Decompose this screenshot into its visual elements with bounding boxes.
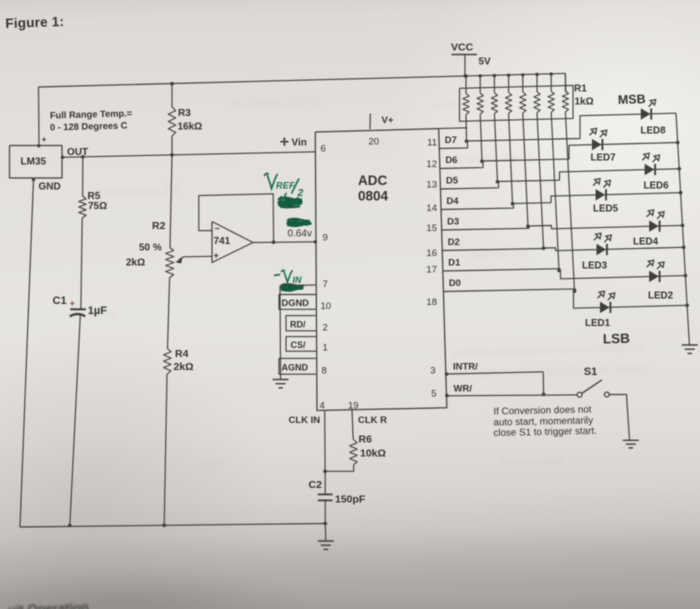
annotation scribble 3 xyxy=(281,284,305,291)
label R2 percent xyxy=(139,243,162,254)
wire D0 net xyxy=(443,289,687,308)
pin number 20 xyxy=(369,136,380,147)
node pin9 edge xyxy=(314,240,317,243)
node pin3 xyxy=(445,372,449,376)
node D4 resistor junction xyxy=(511,202,515,206)
pin number 13 xyxy=(426,180,437,191)
ground C2 symbol xyxy=(318,541,334,549)
svg-text:R6: R6 xyxy=(359,434,373,446)
sensor LM35 xyxy=(10,146,63,179)
resistor R1 element 8 xyxy=(562,74,574,292)
label R3 xyxy=(178,108,203,133)
svg-text:5V: 5V xyxy=(479,57,492,68)
wire clk to C2 xyxy=(324,471,326,494)
capacitor C1 xyxy=(53,295,86,317)
annotation scribble 1 xyxy=(278,193,303,207)
svg-text:ln the res on PIC: ln the res on PIC xyxy=(95,185,182,199)
node cathode bus LED1 xyxy=(685,304,689,308)
wire pin7 xyxy=(280,284,316,287)
label Vin xyxy=(280,137,307,149)
pin number 19 xyxy=(348,400,359,411)
label WR xyxy=(454,384,473,395)
wire D3 net xyxy=(442,225,683,230)
svg-text:IN: IN xyxy=(293,275,303,285)
wire R6 top xyxy=(352,410,353,440)
svg-text:0804: 0804 xyxy=(358,189,389,204)
svg-text:7: 7 xyxy=(323,279,328,290)
svg-text:LED1: LED1 xyxy=(585,318,611,329)
svg-text:AGND: AGND xyxy=(282,363,309,373)
svg-text:2kΩ: 2kΩ xyxy=(126,258,145,269)
pin label D3 xyxy=(447,215,459,226)
wire LM35 plus xyxy=(37,87,40,148)
label R6 xyxy=(359,434,386,460)
resistor R1 element 6 xyxy=(534,74,544,248)
resistor R6 xyxy=(350,440,357,466)
svg-text:CLK IN: CLK IN xyxy=(289,415,321,426)
node cathode bus LED2 xyxy=(684,274,688,278)
figure title xyxy=(5,14,64,31)
svg-text:+: + xyxy=(42,134,47,144)
node cathode bus LED3 xyxy=(682,246,686,250)
svg-text:+: + xyxy=(214,251,219,261)
node R1 bus junction 5 xyxy=(521,73,524,76)
node R1 bus junction 3 xyxy=(493,74,496,77)
svg-text:LM35: LM35 xyxy=(21,157,47,168)
svg-text:D5: D5 xyxy=(446,174,458,185)
wire S1 to ground xyxy=(609,394,629,440)
label LED5 xyxy=(593,204,619,215)
pin V+ stub xyxy=(370,114,394,130)
power VCC xyxy=(451,42,491,77)
pin number 7 xyxy=(323,279,328,290)
svg-text:Vin: Vin xyxy=(292,138,307,149)
note full range xyxy=(50,108,133,132)
wire wiper to opamp xyxy=(184,255,213,258)
wire D7 box top xyxy=(439,127,468,130)
svg-text:LED5: LED5 xyxy=(593,204,619,215)
node clk junction xyxy=(323,470,327,474)
LED LED6 xyxy=(642,153,659,175)
pin number 3 xyxy=(430,366,435,377)
node cathode bus LED6 xyxy=(677,167,681,171)
node R1 bus junction 4 xyxy=(507,74,510,77)
svg-text:150pF: 150pF xyxy=(335,494,366,506)
label LED8 xyxy=(641,126,667,137)
resistor R4 xyxy=(164,349,171,375)
wire ground bus xyxy=(20,524,325,528)
label LED7 xyxy=(591,153,617,164)
svg-text:LED6: LED6 xyxy=(644,181,670,192)
wire D1 net xyxy=(443,269,686,279)
LED LED8 xyxy=(641,100,656,120)
svg-text:C2: C2 xyxy=(309,479,323,491)
label CLK IN xyxy=(289,415,321,426)
svg-text:Full Range Temp.=: Full Range Temp.= xyxy=(50,108,133,120)
pin label D1 xyxy=(448,256,460,267)
svg-text:741: 741 xyxy=(214,236,231,247)
svg-text:−: − xyxy=(215,224,220,234)
svg-text:C1: C1 xyxy=(53,295,67,307)
node R1 bus junction 7 xyxy=(550,72,553,75)
wire R3 top xyxy=(171,84,173,107)
svg-text:D1: D1 xyxy=(448,256,460,267)
label C1 value xyxy=(88,305,107,317)
pin label D0 xyxy=(449,277,461,288)
svg-text:0 - 128 Degrees C: 0 - 128 Degrees C xyxy=(50,120,128,132)
label R2 value xyxy=(126,258,145,269)
wire D6 net xyxy=(440,143,678,169)
node gnd bus C1 xyxy=(68,524,72,528)
ground AGND symbol xyxy=(273,380,289,388)
wire R3 bottom xyxy=(171,136,173,155)
svg-text:10kΩ: 10kΩ xyxy=(360,448,386,460)
wire LED cathode bus xyxy=(676,113,689,344)
svg-text:D6: D6 xyxy=(445,154,457,165)
label LED2 xyxy=(648,291,674,302)
svg-text:INTR/: INTR/ xyxy=(453,362,478,373)
pin number 4 xyxy=(320,401,325,412)
svg-text:D0: D0 xyxy=(449,277,461,288)
svg-text:RD/: RD/ xyxy=(290,320,306,330)
svg-text:6: 6 xyxy=(321,144,326,155)
pin number 5 xyxy=(431,389,436,400)
svg-text:4: 4 xyxy=(320,401,325,412)
node D2 resistor junction xyxy=(542,246,546,250)
svg-text:ace: ace xyxy=(205,457,224,469)
wire LM35 gnd down xyxy=(20,178,35,527)
wire agnd chain xyxy=(279,286,282,379)
svg-text:R1: R1 xyxy=(574,84,587,95)
annotation scribble 2 xyxy=(287,219,312,226)
pin number 6 xyxy=(321,144,326,155)
svg-text:12: 12 xyxy=(426,159,437,170)
label LED4 xyxy=(633,237,659,248)
resistor R1 element 3 xyxy=(491,75,497,181)
node R3 bus xyxy=(170,82,174,86)
wire WR xyxy=(447,394,577,397)
pin number 14 xyxy=(426,203,437,214)
node R1 bus junction 1 xyxy=(464,75,467,78)
svg-text:LED2: LED2 xyxy=(648,291,674,302)
svg-text:17: 17 xyxy=(426,265,437,276)
svg-text:se od: se od xyxy=(430,99,459,112)
label CLK R xyxy=(358,415,387,426)
wire D4 net xyxy=(441,193,681,210)
label MSB xyxy=(618,92,646,107)
node cathode bus LED5 xyxy=(679,191,683,195)
label GND xyxy=(39,182,61,193)
pin number 11 xyxy=(427,138,437,149)
svg-text:+: + xyxy=(70,298,75,308)
wire R4 down xyxy=(164,374,167,525)
label LED6 xyxy=(644,181,670,192)
svg-text:3: 3 xyxy=(430,366,435,377)
wire D2 net xyxy=(442,247,684,250)
svg-text:WR/: WR/ xyxy=(454,384,473,395)
pin number 9 xyxy=(323,233,328,244)
pin number 12 xyxy=(426,159,437,170)
label R5 xyxy=(88,191,108,212)
wire R5 top xyxy=(82,157,84,196)
wire VCC bus xyxy=(39,73,566,92)
wire OUT to R2 xyxy=(170,155,172,248)
potentiometer R2 xyxy=(166,248,174,278)
pin box DGND xyxy=(279,295,316,310)
svg-text:LED7: LED7 xyxy=(591,153,617,164)
switch S1 xyxy=(577,380,609,397)
svg-text:GND: GND xyxy=(39,182,61,193)
resistor R1 element 4 xyxy=(506,75,513,204)
svg-text:50 %: 50 % xyxy=(139,243,162,254)
node D1 resistor junction xyxy=(557,269,561,273)
svg-text:2: 2 xyxy=(297,187,304,199)
svg-text:LSB: LSB xyxy=(603,331,631,347)
pin number 1 xyxy=(323,343,328,354)
pin label D6 xyxy=(445,154,457,165)
wire D5 net xyxy=(441,169,680,189)
svg-text:S1: S1 xyxy=(584,366,597,378)
wire R6 bottom xyxy=(325,465,354,471)
wire opamp out xyxy=(253,241,316,244)
wire bus to ground xyxy=(324,524,326,541)
node OUT c xyxy=(170,153,174,157)
capacitor C2 xyxy=(309,479,333,500)
pin label D4 xyxy=(447,195,460,206)
svg-text:R4: R4 xyxy=(175,348,189,360)
pin number 15 xyxy=(426,223,437,234)
svg-text:MSB: MSB xyxy=(618,92,646,107)
label 0.64v xyxy=(288,229,312,240)
wire R2 to R4 xyxy=(168,278,170,349)
resistor R1 element 2 xyxy=(477,76,483,161)
svg-text:2: 2 xyxy=(323,323,328,334)
resistor network R1 box xyxy=(460,85,574,121)
svg-text:75Ω: 75Ω xyxy=(88,201,107,212)
svg-text:✛: ✛ xyxy=(280,137,289,149)
wire C2 down xyxy=(323,500,327,525)
pin number 8 xyxy=(322,366,327,377)
svg-text:LED4: LED4 xyxy=(633,237,659,248)
pin number 10 xyxy=(321,301,332,312)
svg-text:D3: D3 xyxy=(447,215,459,226)
label R2 xyxy=(152,220,166,232)
svg-text:8: 8 xyxy=(322,366,327,377)
pin label D5 xyxy=(446,174,458,185)
node pin5 xyxy=(445,394,449,398)
LED LED2 xyxy=(647,260,664,282)
ground LED bus symbol xyxy=(682,345,698,353)
note conversion xyxy=(493,404,597,439)
IC ADC0804 xyxy=(315,129,447,411)
ground S1 symbol xyxy=(623,440,639,448)
pin number 18 xyxy=(426,297,437,308)
node R1 bus junction 6 xyxy=(535,73,538,76)
svg-text:D7: D7 xyxy=(445,134,457,145)
pin box CS xyxy=(286,337,316,352)
node OUT a xyxy=(61,156,64,159)
svg-text:DGND: DGND xyxy=(282,298,310,308)
wire opamp feedback xyxy=(199,194,274,242)
node D3 resistor junction xyxy=(526,224,530,228)
label S1 xyxy=(584,366,597,378)
svg-text:0.64v: 0.64v xyxy=(288,229,312,240)
svg-text:ADC: ADC xyxy=(358,173,387,188)
svg-text:the digital indicat di: the digital indicat display each binary xyxy=(452,363,649,380)
node D7 resistor junction xyxy=(465,139,469,143)
svg-text:D2: D2 xyxy=(448,236,460,247)
svg-text:15: 15 xyxy=(426,223,437,234)
node D6 resistor junction xyxy=(480,159,484,163)
pin label D7 xyxy=(445,134,457,145)
wire OUT to Vin xyxy=(62,152,316,158)
pin number 17 xyxy=(426,265,437,276)
node cathode bus LED7 xyxy=(676,141,680,145)
LED LED5 xyxy=(593,179,610,201)
svg-text:Figure 1:: Figure 1: xyxy=(5,14,64,31)
pin label D2 xyxy=(448,236,460,247)
svg-text:20: 20 xyxy=(369,136,380,147)
label R4 xyxy=(174,348,194,373)
resistor R3 xyxy=(168,107,175,136)
pin number 2 xyxy=(323,323,328,334)
svg-text:14: 14 xyxy=(426,203,437,214)
pin number 16 xyxy=(426,248,437,259)
pin box RD xyxy=(286,316,316,331)
resistor R1 element 7 xyxy=(548,74,559,270)
svg-text:close S1 to trigger start.: close S1 to trigger start. xyxy=(493,426,597,439)
svg-text:1: 1 xyxy=(323,343,328,354)
svg-text:REF: REF xyxy=(276,181,295,191)
wire INTR xyxy=(447,372,544,395)
svg-text:16: 16 xyxy=(426,248,437,259)
svg-text:R3: R3 xyxy=(178,108,191,119)
svg-text:10: 10 xyxy=(321,301,332,312)
svg-text:D4: D4 xyxy=(447,195,460,206)
node cathode bus LED4 xyxy=(681,224,685,228)
svg-text:re 3 using the su: re 3 using the su xyxy=(232,96,320,110)
node D0 resistor junction xyxy=(573,289,577,293)
wire C1 down xyxy=(70,315,81,526)
svg-text:V+: V+ xyxy=(382,115,394,126)
svg-text:1µF: 1µF xyxy=(88,305,107,317)
annotation -Vin xyxy=(274,270,302,285)
svg-text:19: 19 xyxy=(348,400,359,411)
pin box AGND xyxy=(279,358,316,374)
svg-text:16kΩ: 16kΩ xyxy=(178,122,203,133)
node gnd bus R4 xyxy=(162,523,166,527)
paper show-through xyxy=(89,96,649,469)
LED LED3 xyxy=(594,233,611,255)
svg-text:LED3: LED3 xyxy=(582,261,608,272)
label OUT xyxy=(67,147,88,158)
pot R2 wiper arrow xyxy=(175,257,183,264)
label LED1 xyxy=(585,318,611,329)
node opamp out xyxy=(272,240,276,244)
svg-text:9: 9 xyxy=(323,233,328,244)
resistor R5 xyxy=(79,196,86,218)
node INTR WR junction xyxy=(542,393,546,397)
resistor R1 element 1 xyxy=(463,76,469,141)
op-amp U1 741 xyxy=(212,222,253,263)
svg-text:18: 18 xyxy=(426,297,437,308)
svg-text:2kΩ: 2kΩ xyxy=(174,361,194,373)
wire pin4 down xyxy=(324,410,326,471)
svg-text:CLK R: CLK R xyxy=(358,415,387,426)
label INTR xyxy=(453,362,478,373)
svg-text:LED8: LED8 xyxy=(641,126,667,137)
svg-text:13: 13 xyxy=(426,180,437,191)
svg-text:VCC: VCC xyxy=(451,42,474,54)
node D5 resistor junction xyxy=(496,180,500,184)
resistor R1 element 5 xyxy=(520,75,528,226)
node OUT b xyxy=(81,155,85,159)
LED LED7 xyxy=(590,128,607,150)
label LSB xyxy=(603,331,631,347)
svg-text:11: 11 xyxy=(427,138,437,149)
svg-text:5: 5 xyxy=(431,389,436,400)
svg-text:CS/: CS/ xyxy=(291,340,307,350)
LED LED1 xyxy=(598,291,615,313)
wire D7 net xyxy=(439,113,676,148)
svg-text:th se on the dig: th se on the dig xyxy=(455,152,537,166)
LED LED4 xyxy=(647,210,664,232)
wire R5 to C1 xyxy=(81,218,82,309)
svg-text:R2: R2 xyxy=(152,220,166,232)
node VCC junction xyxy=(464,74,468,78)
label C2 value xyxy=(335,494,366,506)
label LED3 xyxy=(582,261,608,272)
node R1 bus junction 2 xyxy=(479,74,482,77)
svg-text:1kΩ: 1kΩ xyxy=(575,97,594,108)
label R1 xyxy=(574,84,594,108)
annotation Vref/2 xyxy=(265,173,304,199)
svg-text:binary value: binary value xyxy=(500,455,564,469)
LM35 plus sign xyxy=(42,134,47,144)
